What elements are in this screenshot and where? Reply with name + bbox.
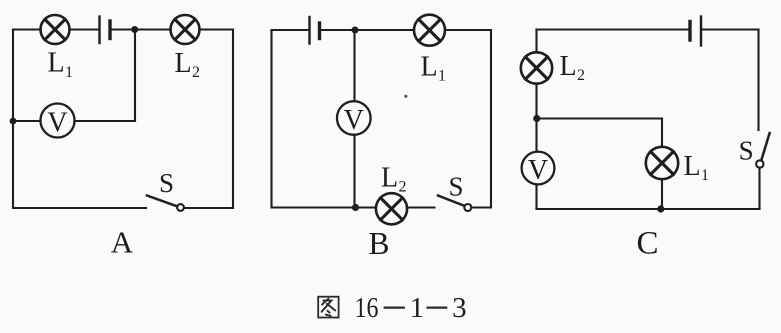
battery (B) long plate <box>308 17 310 44</box>
wire A top between L1 and battery <box>70 28 99 30</box>
wire A top segment to L1 <box>13 28 41 30</box>
wire C top right segment <box>702 28 758 30</box>
svg-text:L: L <box>560 51 577 82</box>
stray ink speck <box>404 95 407 98</box>
switch S (A) contact circle <box>177 204 184 211</box>
lamp L1 (A) <box>41 15 70 44</box>
wire C bottom <box>537 208 760 210</box>
wire C below L1 <box>661 179 663 209</box>
caption dash 1 <box>384 307 405 309</box>
switch S (B) contact circle <box>464 204 471 211</box>
svg-text:16: 16 <box>355 292 379 324</box>
label L2 (C) <box>560 51 586 84</box>
node A top junction <box>131 26 138 33</box>
lamp L2 (A) <box>171 15 200 44</box>
node B bottom junction <box>352 204 359 211</box>
battery (B) short plate <box>318 23 321 39</box>
label L2 (B) <box>381 163 407 196</box>
node B top junction <box>352 27 359 34</box>
wire C branch vertical to L1 <box>661 119 663 147</box>
label L1 (B) <box>421 51 447 84</box>
svg-text:L: L <box>48 48 65 79</box>
node C left junction <box>533 115 540 122</box>
svg-text:1: 1 <box>410 292 425 324</box>
label L1 (C) <box>684 151 710 184</box>
caption character 图 (drawn) <box>318 297 338 318</box>
wire C right vertical upper <box>757 30 759 131</box>
svg-text:2: 2 <box>399 179 407 196</box>
switch S (B) lever <box>438 196 464 206</box>
svg-text:V: V <box>344 105 364 136</box>
wire A bottom right <box>185 207 234 209</box>
svg-text:3: 3 <box>452 292 467 324</box>
voltmeter V (B) <box>337 101 371 136</box>
wire B right vertical <box>490 30 492 208</box>
wire B top between battery and L1 <box>321 29 414 31</box>
wire A voltmeter branch left <box>13 120 41 122</box>
voltmeter V (C) <box>522 152 555 186</box>
svg-text:V: V <box>47 107 67 138</box>
svg-text:S: S <box>739 136 754 166</box>
caption dash 2 <box>427 307 448 309</box>
svg-text:A: A <box>111 225 134 260</box>
battery (A) short plate <box>108 21 111 39</box>
svg-text:S: S <box>159 168 174 198</box>
wire B bottom right <box>472 206 491 208</box>
svg-text:1: 1 <box>65 64 73 81</box>
wire C left vertical bottom <box>535 184 537 209</box>
wire A voltmeter branch vertical <box>134 30 136 122</box>
svg-text:1: 1 <box>438 68 446 85</box>
wire B top to battery <box>272 29 309 31</box>
wire A bottom left <box>13 207 146 209</box>
wire C top left segment <box>537 28 689 30</box>
lamp L2 (B) <box>376 193 407 224</box>
voltmeter V (A) <box>41 104 75 139</box>
wire A voltmeter branch right <box>75 120 136 122</box>
wire C branch horizontal <box>537 117 663 119</box>
svg-text:C: C <box>636 226 658 262</box>
svg-text:2: 2 <box>577 67 585 84</box>
battery (A) long plate <box>98 17 100 44</box>
svg-text:V: V <box>528 155 548 186</box>
switch S (C) lever <box>761 133 769 160</box>
svg-text:S: S <box>448 172 463 202</box>
node A left junction <box>10 118 17 125</box>
node C bottom junction <box>657 205 664 212</box>
svg-text:L: L <box>421 51 438 82</box>
switch S (A) lever <box>147 196 177 207</box>
wire B bottom middle <box>407 206 435 208</box>
wire C left vertical middle <box>535 84 537 152</box>
battery (C) short plate <box>688 22 691 41</box>
svg-text:L: L <box>684 151 701 182</box>
switch S (C) contact circle <box>756 160 763 167</box>
label L2 (A) <box>175 48 201 81</box>
wire A top-right segment <box>200 28 234 30</box>
svg-text:2: 2 <box>192 64 200 81</box>
svg-text:B: B <box>368 226 389 261</box>
wire B middle branch lower <box>353 135 355 208</box>
wire A left vertical <box>12 30 14 209</box>
wire C left vertical to L2 <box>535 30 537 53</box>
wire B top-right segment <box>445 29 491 31</box>
wire A right vertical <box>232 30 234 209</box>
svg-text:L: L <box>381 163 398 194</box>
wire B left vertical <box>270 30 272 208</box>
battery (C) long plate <box>700 17 702 46</box>
label L1 (A) <box>48 48 74 81</box>
wire A top between battery and L2 <box>112 28 171 30</box>
lamp L2 (C) <box>521 52 552 83</box>
lamp L1 (B) <box>414 15 445 46</box>
wire B middle branch upper <box>353 30 355 101</box>
wire B bottom left <box>272 206 377 208</box>
svg-text:L: L <box>175 48 192 79</box>
lamp L1 (C) <box>646 147 678 179</box>
svg-text:1: 1 <box>701 167 709 184</box>
wire C right vertical lower <box>758 168 760 209</box>
